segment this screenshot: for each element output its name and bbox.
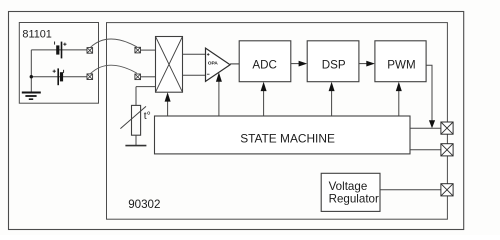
svg-text:ADC: ADC (252, 59, 276, 72)
svg-text:PWM: PWM (387, 59, 415, 72)
svg-text:STATE MACHINE: STATE MACHINE (240, 131, 335, 145)
svg-text:DSP: DSP (322, 59, 346, 72)
svg-text:81101: 81101 (22, 29, 51, 41)
svg-text:90302: 90302 (128, 198, 160, 211)
svg-text:Regulator: Regulator (329, 193, 379, 206)
svg-text:OPA: OPA (208, 61, 218, 67)
svg-text:t°: t° (144, 111, 151, 122)
svg-text:Voltage: Voltage (329, 180, 368, 193)
